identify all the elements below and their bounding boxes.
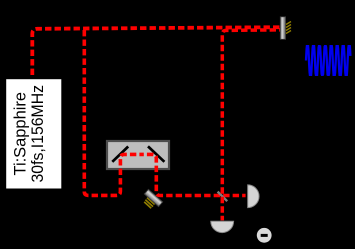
minus (balanced detection) circle (257, 228, 272, 243)
scanning mirror top right (280, 17, 285, 40)
hatched mount of scanning mirror (286, 22, 291, 34)
wire: return beam from scanning mirror back left, then down to combiner (222, 30, 283, 221)
turning mirror hatched mount (144, 198, 154, 209)
wire: delay arm continuation through turning mirror to right detector (139, 154, 245, 195)
wire: laser output beam up from Ti:Sapphire box then right along top (32, 27, 283, 75)
laser box Ti:Sapphire (5, 78, 63, 190)
photodetector bottom (half disc) (211, 221, 234, 232)
wire: delay arm down at x=84, U-turn into delay stage, over fold mirrors, down and right to detector (84, 30, 138, 195)
svg-text:Ti:Sapphire: Ti:Sapphire (12, 92, 30, 175)
photodetector right (half disc) (248, 185, 259, 208)
blue interferogram waveform (306, 46, 350, 75)
svg-text:30fs,I156MHz: 30fs,I156MHz (29, 85, 47, 183)
turning mirror (sends delay arm to horizontal) (144, 189, 162, 206)
delay stage box (107, 141, 169, 169)
beamsplitter plate at combining crossing (218, 192, 228, 202)
fold mirror left inside delay box (112, 147, 128, 162)
fold mirror right inside delay box (148, 146, 164, 161)
